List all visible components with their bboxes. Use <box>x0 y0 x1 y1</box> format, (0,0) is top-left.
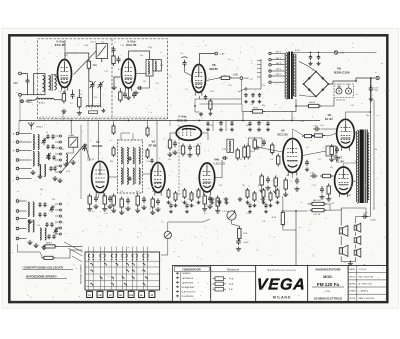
svg-text:240: 240 <box>13 81 18 85</box>
svg-text:CARTA MICA: CARTA MICA <box>182 277 194 280</box>
svg-text:C.4: C.4 <box>180 53 183 55</box>
svg-text:ELETTROLITICI: ELETTROLITICI <box>182 291 196 293</box>
anode resistor R3 3k <box>87 59 90 71</box>
svg-text:M I L A N O: M I L A N O <box>273 295 291 299</box>
svg-text:C.L.: C.L. <box>326 289 331 293</box>
band terminals lower <box>16 200 19 203</box>
svg-text:½ ECC 83: ½ ECC 83 <box>213 161 226 165</box>
svg-text:5,6: 5,6 <box>306 147 309 149</box>
keyboard switch matrix <box>85 252 160 290</box>
osc coil <box>66 154 68 164</box>
svg-text:Resistenze: Resistenze <box>227 268 240 271</box>
output tube V6 EL84 <box>337 119 355 150</box>
V5 plate resistors <box>247 144 250 160</box>
svg-text:1k: 1k <box>152 191 154 193</box>
IF stage upper parts <box>112 124 115 135</box>
svg-text:TASTIERA COMANDI: TASTIERA COMANDI <box>80 264 83 284</box>
magic eye V8 EM80 <box>192 65 206 96</box>
electrolytic block C.PL dashed <box>334 84 354 98</box>
svg-text:56k: 56k <box>246 125 249 127</box>
svg-text:REG: REG <box>27 102 32 104</box>
matrix top leads <box>88 247 90 253</box>
svg-text:SCHEMA ELETTRICO: SCHEMA ELETTRICO <box>314 296 343 300</box>
svg-text:ECC 85: ECC 85 <box>126 43 137 47</box>
svg-text:1 MΩ: 1 MΩ <box>233 74 239 77</box>
svg-text:ECH 81: ECH 81 <box>93 144 104 148</box>
tweeter LS4 <box>354 236 361 244</box>
svg-text:4,7: 4,7 <box>50 167 53 169</box>
svg-text:56k: 56k <box>40 189 43 191</box>
woofer LS2 <box>339 245 348 256</box>
svg-text:3,3n: 3,3n <box>320 125 324 127</box>
resistenze legend box <box>211 266 256 302</box>
svg-text:FON: FON <box>129 295 134 297</box>
svg-text:C.12: C.12 <box>350 105 354 107</box>
svg-text:3,3n: 3,3n <box>52 245 56 247</box>
input capacitor C1 <box>26 78 30 85</box>
svg-text:BOB.2: BOB.2 <box>37 127 44 129</box>
border frame <box>9 35 387 302</box>
svg-text:0,5M: 0,5M <box>84 45 89 47</box>
svg-text:C.12: C.12 <box>104 71 108 73</box>
svg-text:L. ARELLI: L. ARELLI <box>359 290 369 293</box>
lower band coils <box>28 202 29 216</box>
svg-text:L.5: L.5 <box>60 217 63 219</box>
FM osc coil <box>86 106 101 108</box>
svg-text:ECC 83: ECC 83 <box>278 133 289 137</box>
lower switch contacts <box>60 203 62 205</box>
svg-text:C.35: C.35 <box>120 45 124 47</box>
grid resistor R2 <box>78 95 81 109</box>
revision table <box>348 266 386 302</box>
extra V5 stage parts <box>253 138 256 151</box>
svg-text:R.31: R.31 <box>196 149 200 151</box>
coupling to V4b <box>227 139 234 152</box>
svg-text:M.F.: M.F. <box>210 125 214 127</box>
svg-text:EL 84: EL 84 <box>325 117 333 121</box>
svg-text:R.22: R.22 <box>66 171 70 173</box>
grounds under V1a stage <box>101 109 105 113</box>
rectifier bridge V9 B250 C150 <box>304 72 329 97</box>
IF transformer T1 <box>146 60 153 77</box>
svg-text:1MΩ: 1MΩ <box>244 78 249 80</box>
heater bypass caps <box>309 55 312 60</box>
converter V2 ECH81 <box>92 161 109 195</box>
svg-text:C.26: C.26 <box>146 161 150 163</box>
svg-text:5,6: 5,6 <box>228 59 231 61</box>
svg-text:S-AM: S-AM <box>69 134 75 137</box>
wiper diagonals <box>64 242 83 252</box>
svg-text:15p: 15p <box>374 149 377 151</box>
svg-text:R.7: R.7 <box>250 79 253 81</box>
svg-text:2,2k: 2,2k <box>228 85 232 87</box>
svg-text:IN POSIZIONE SPENTO: IN POSIZIONE SPENTO <box>26 275 57 279</box>
1M grid resistor <box>219 76 233 79</box>
svg-text:C.8: C.8 <box>120 191 123 193</box>
svg-text:4,7: 4,7 <box>92 211 95 213</box>
svg-text:A. STELLONI: A. STELLONI <box>359 282 372 285</box>
long tail resistor <box>281 210 284 227</box>
svg-text:CARTA TRES.: CARTA TRES. <box>182 281 195 284</box>
svg-text:C.37 26: C.37 26 <box>313 214 321 216</box>
svg-text:15p: 15p <box>168 159 171 161</box>
phase splitter V5 ECC83 <box>283 139 302 176</box>
output transformer T.U. <box>357 131 358 203</box>
crossover cap <box>362 214 367 219</box>
antenna coils <box>33 135 34 150</box>
svg-text:R a d i o T e l e v i s i o: R a d i o T e l e v i s i o n e <box>268 269 297 272</box>
svg-text:10n: 10n <box>366 115 369 117</box>
svg-text:110 V: 110 V <box>276 74 282 76</box>
screen dropper <box>250 110 265 113</box>
speckle <box>12 37 386 301</box>
eye top feed <box>200 54 215 66</box>
svg-text:C.8: C.8 <box>250 104 253 106</box>
mains feed wire <box>248 59 261 89</box>
svg-text:C.AV: C.AV <box>220 53 225 56</box>
oscillator gang S-AM <box>69 137 78 147</box>
svg-text:VAL.134: VAL.134 <box>313 199 321 202</box>
svg-text:C.31: C.31 <box>104 213 108 215</box>
svg-text:47k: 47k <box>262 85 265 87</box>
grid caps to outputs <box>313 127 320 132</box>
FM tuning gang S-FM <box>96 44 107 59</box>
heater droppers on bus <box>219 121 223 126</box>
bypass cap C4 <box>71 92 75 99</box>
svg-text:ECC 85: ECC 85 <box>55 43 66 47</box>
bridge AC leads <box>299 62 316 72</box>
svg-text:140 V: 140 V <box>276 63 282 65</box>
small pot near matrix <box>164 231 171 238</box>
filter cap 8uF <box>369 86 374 93</box>
NFB bus <box>281 210 308 212</box>
FM antenna terminals <box>19 72 22 75</box>
svg-text:0,047: 0,047 <box>244 242 250 244</box>
svg-text:FM 120 Fa: FM 120 Fa <box>317 282 340 287</box>
svg-text:C.35: C.35 <box>238 159 242 161</box>
push buttons row <box>87 291 93 297</box>
svg-text:47k: 47k <box>330 167 333 169</box>
svg-text:R.14: R.14 <box>246 213 250 215</box>
padding trimmers <box>42 138 46 145</box>
triode V1b ECC85 <box>122 59 136 91</box>
svg-text:APPR.: APPR. <box>349 282 356 285</box>
IF transformer can MF1/MF2 <box>118 140 143 193</box>
screened box <box>153 60 162 72</box>
V4b lower parts <box>203 194 206 207</box>
svg-text:220: 220 <box>160 65 163 67</box>
svg-text:82p: 82p <box>262 105 265 107</box>
speaker feed wires <box>369 210 371 217</box>
padder caps <box>38 202 41 207</box>
V5 coupling <box>254 146 261 150</box>
svg-text:B250 C150: B250 C150 <box>334 70 350 74</box>
wires V1a stage <box>65 53 89 60</box>
svg-text:RADIORICEVITORE: RADIORICEVITORE <box>315 268 340 272</box>
svg-text:1M: 1M <box>143 81 146 83</box>
V2 bias parts <box>88 194 91 207</box>
svg-text:160 V: 160 V <box>276 58 282 60</box>
AVC line <box>87 121 89 162</box>
preamp V4b ECC83 <box>199 163 214 195</box>
svg-text:0,5÷7: 0,5÷7 <box>91 41 97 44</box>
svg-text:EF 89: EF 89 <box>149 144 157 148</box>
choke BOB.1 <box>36 98 54 100</box>
svg-text:10n: 10n <box>140 55 143 57</box>
svg-text:C.18: C.18 <box>300 121 304 123</box>
svg-text:EM 80: EM 80 <box>210 67 219 71</box>
oscillator trimmer <box>91 82 95 89</box>
aerial <box>30 126 32 130</box>
volume pot <box>227 211 236 220</box>
balun coil box <box>34 74 45 95</box>
bridge + lead <box>329 81 341 84</box>
svg-text:R.9: R.9 <box>118 69 121 71</box>
svg-text:CONDENSATORI: CONDENSATORI <box>182 268 201 271</box>
triode V1a ECC85 <box>58 60 72 91</box>
B+ output terminal <box>376 76 379 79</box>
aerial terminals <box>16 132 19 135</box>
svg-text:OM: OM <box>98 295 101 297</box>
svg-text:3kΩ: 3kΩ <box>93 64 98 67</box>
svg-text:VD.R.: VD.R. <box>253 108 259 110</box>
speaker bus wires <box>340 215 342 226</box>
condensatori legend box <box>172 266 210 302</box>
svg-text:R.7: R.7 <box>80 94 83 96</box>
svg-text:R.31: R.31 <box>64 55 68 57</box>
heater bus wire <box>19 120 320 122</box>
tweeter LS3 <box>354 223 361 232</box>
V5 cathode parts <box>260 174 263 188</box>
wave switch contacts <box>60 135 62 137</box>
svg-text:1 w: 1 w <box>229 289 233 291</box>
secondary winding <box>293 54 295 96</box>
svg-text:0,5µF: 0,5µF <box>371 220 377 222</box>
series resistor BOB.4 <box>43 245 58 248</box>
svg-text:0,1: 0,1 <box>204 213 207 215</box>
coupling coil L1 <box>49 76 51 90</box>
coupling caps left of V1b <box>112 46 116 53</box>
svg-text:R.28: R.28 <box>334 159 338 161</box>
extra mid-band parts <box>167 188 170 199</box>
svg-text:I CONTATTI SONO COLLEGATI: I CONTATTI SONO COLLEGATI <box>23 266 64 270</box>
svg-text:C.21: C.21 <box>155 83 159 85</box>
svg-text:10n: 10n <box>286 175 289 177</box>
svg-text:M.F.: M.F. <box>52 199 56 201</box>
speaker ground <box>348 262 353 267</box>
title box RADIORICEVITORE <box>308 266 349 302</box>
primary winding <box>286 53 287 99</box>
svg-text:ECC 83: ECC 83 <box>177 118 188 122</box>
svg-text:C.18: C.18 <box>36 225 40 227</box>
feedback box <box>326 146 336 156</box>
heater winding 6.3V line <box>293 52 335 54</box>
svg-text:C.31: C.31 <box>60 149 64 151</box>
svg-text:2,2k: 2,2k <box>262 221 266 223</box>
VEGA logo box <box>256 266 308 302</box>
svg-text:R.14: R.14 <box>210 91 214 93</box>
series resistor lower <box>42 256 56 259</box>
svg-text:RAG. PULETTA: RAG. PULETTA <box>359 297 375 300</box>
screen hatching <box>39 116 169 119</box>
svg-text:50+50+25: 50+50+25 <box>336 99 346 101</box>
svg-text:0,1: 0,1 <box>185 89 188 91</box>
svg-text:PROG.: PROG. <box>349 276 356 278</box>
svg-text:VEGA: VEGA <box>256 277 306 294</box>
diode load parts <box>168 138 171 151</box>
legend band top edge <box>172 265 386 267</box>
svg-text:220 V: 220 V <box>276 52 282 54</box>
svg-text:BOB.1: BOB.1 <box>39 103 46 105</box>
svg-text:¼ w: ¼ w <box>229 278 234 281</box>
detector V4a ECC83 <box>176 126 201 141</box>
dropper 500ohm <box>306 104 322 107</box>
svg-text:ING. PULETTA: ING. PULETTA <box>359 275 374 278</box>
power transformer T-AL core <box>288 52 290 100</box>
svg-text:125 V: 125 V <box>276 69 282 71</box>
terminal P (phono) <box>21 100 24 103</box>
V1b stage wires <box>129 51 150 60</box>
svg-text:C.26: C.26 <box>330 203 334 205</box>
svg-text:C.12: C.12 <box>312 185 316 187</box>
svg-text:R.7: R.7 <box>318 159 321 161</box>
plate leads to OPT <box>354 132 356 134</box>
bus decoupling parts <box>206 121 209 126</box>
svg-text:680: 680 <box>348 195 351 197</box>
IF amp V3 EF89 <box>151 163 165 196</box>
svg-text:500 Ω: 500 Ω <box>309 102 315 104</box>
tuning-eye grid cap <box>183 60 187 67</box>
svg-text:82p: 82p <box>136 191 139 193</box>
band switch wiper <box>60 144 85 174</box>
svg-text:V4b: V4b <box>214 158 220 162</box>
svg-text:1M: 1M <box>242 185 245 187</box>
svg-text:1k: 1k <box>46 132 48 134</box>
output tube V7 EL84 <box>335 167 353 197</box>
svg-text:220: 220 <box>190 195 193 197</box>
svg-text:47k: 47k <box>94 97 97 99</box>
woofer LS1 <box>339 226 348 237</box>
mains voltage taps <box>271 53 284 55</box>
svg-text:6,3 V: 6,3 V <box>295 50 301 52</box>
V3 bias parts <box>112 194 115 208</box>
svg-text:CERAMICI: CERAMICI <box>182 272 192 275</box>
FM tuner dashed enclosure <box>38 39 168 119</box>
svg-text:5,6: 5,6 <box>70 103 73 105</box>
svg-text:0,5M: 0,5M <box>222 149 227 151</box>
cathode resistor R1 <box>62 91 65 104</box>
ladder capacitors <box>46 134 49 139</box>
svg-text:C.21: C.21 <box>218 185 222 187</box>
svg-text:C.4: C.4 <box>58 91 61 93</box>
svg-text:1-12-54: 1-12-54 <box>359 269 367 271</box>
svg-text:L.T.O.A: L.T.O.A <box>222 210 229 213</box>
matrix contacts <box>88 254 90 257</box>
cathode bias <box>330 144 333 157</box>
tone network <box>310 202 327 205</box>
svg-text:C.4: C.4 <box>270 159 273 161</box>
svg-text:POLIESTERE: POLIESTERE <box>182 296 195 298</box>
svg-text:MICA ARGENT.: MICA ARGENT. <box>182 286 196 289</box>
B+ distribution bus <box>200 104 243 111</box>
svg-text:MOD.: MOD. <box>323 275 332 279</box>
pilot lamp terminal <box>334 51 337 54</box>
B+ feed lines <box>369 78 371 210</box>
tweeter LS5 <box>354 248 361 257</box>
